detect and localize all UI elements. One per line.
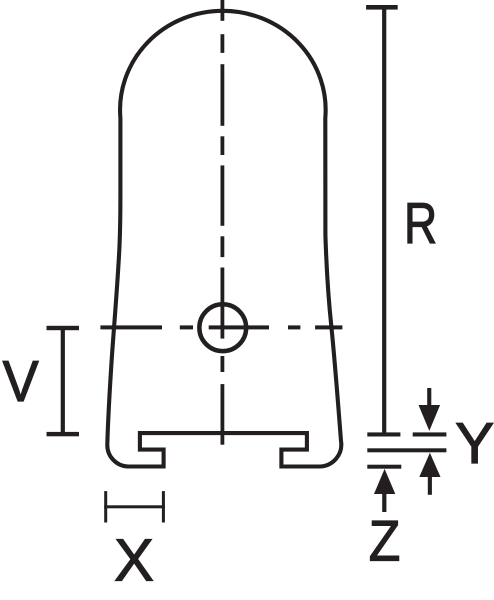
svg-text:Y: Y (455, 412, 494, 476)
svg-text:V: V (3, 348, 39, 413)
horizontal centerline dash segments (100, 325, 342, 329)
Y dimension down arrow (419, 388, 441, 431)
V dimension top bar (47, 326, 80, 330)
extension bar row 1 left (channel line level) (367, 432, 400, 436)
extension bar row 2 long (step level) (367, 448, 446, 452)
extension bar row 3 (bottom edge level) (367, 465, 401, 469)
svg-text:R: R (404, 192, 437, 256)
extension bar row 1 right (413, 432, 447, 436)
V label (3, 348, 39, 413)
part outline (bell-shaped housing cross-section) (107, 11, 341, 467)
Y dimension up arrow (419, 453, 440, 495)
Y label (455, 412, 494, 476)
Z label (369, 508, 401, 573)
Z dimension up arrow (374, 469, 395, 512)
V dimension vertical line (61, 328, 65, 434)
R label (404, 192, 437, 256)
X dimension left tick (104, 491, 107, 522)
X dimension line (104, 505, 165, 508)
X dimension right tick (162, 491, 165, 522)
R dimension top bar (366, 5, 398, 10)
R dimension vertical line (382, 7, 386, 434)
svg-text:X: X (114, 527, 154, 594)
X label (114, 527, 154, 594)
vertical centerline dash segments (221, 0, 225, 445)
hole circle (199, 304, 246, 351)
V dimension bottom bar (47, 432, 80, 436)
svg-text:Z: Z (369, 508, 401, 573)
